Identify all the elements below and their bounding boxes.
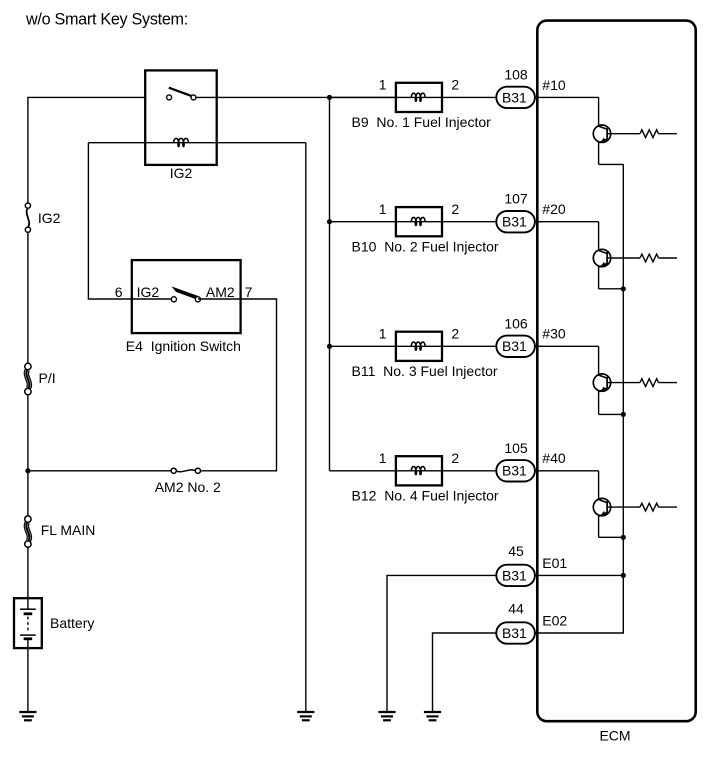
svg-text:FL MAIN: FL MAIN xyxy=(41,522,96,538)
label B11 No. 3 Fuel Injector xyxy=(352,363,498,379)
connector B31 pin 45 (E01) xyxy=(496,565,535,586)
wire: row 2 feed bus to ECM pin #20 xyxy=(330,221,599,223)
label B10 No. 2 Fuel Injector xyxy=(352,238,499,254)
connector B31 pin 105 xyxy=(496,460,535,481)
svg-text:E02: E02 xyxy=(542,612,567,628)
svg-text:B31: B31 xyxy=(502,89,527,105)
label pin 1 (row 3) xyxy=(379,326,387,342)
wire: Q1 emitter to internal bus xyxy=(599,163,624,165)
label ECM pin E01 xyxy=(542,555,567,571)
resistor R3 (base) xyxy=(607,379,677,387)
svg-text:AM2: AM2 xyxy=(206,284,235,300)
injector B9 No. 1 Fuel Injector xyxy=(396,83,442,112)
battery xyxy=(14,598,42,648)
label terminal 107 xyxy=(504,191,528,207)
connector B31 pin 44 (E02) xyxy=(496,622,535,643)
svg-text:Battery: Battery xyxy=(50,615,94,631)
svg-text:1: 1 xyxy=(379,450,387,466)
svg-text:IG2: IG2 xyxy=(137,284,160,300)
ground (E01) xyxy=(378,712,395,720)
label pin 1 (row 2) xyxy=(379,201,387,217)
junction: battery feed / AM2 branch xyxy=(25,468,30,473)
label terminal 45 xyxy=(508,543,524,559)
label pin 2 (row 3) xyxy=(451,326,459,342)
label terminal 105 xyxy=(504,440,528,456)
ground (battery) xyxy=(19,712,36,720)
label ECM pin E02 xyxy=(542,612,567,628)
label pin 2 (row 2) xyxy=(451,201,459,217)
resistor R2 (base) xyxy=(607,254,677,262)
transistor Q1 (injector 1 driver) xyxy=(593,97,610,164)
svg-text:B10 No. 2 Fuel Injector: B10 No. 2 Fuel Injector xyxy=(352,238,499,254)
relay IG2 coil xyxy=(88,138,305,147)
junction: emitter bus row 3 xyxy=(621,412,626,417)
injector B10 No. 2 Fuel Injector xyxy=(396,207,442,236)
transistor Q2 (injector 2 driver) xyxy=(593,222,610,289)
svg-text:#20: #20 xyxy=(542,201,566,217)
injector B12 No. 4 Fuel Injector xyxy=(396,456,442,485)
svg-text:#10: #10 xyxy=(542,77,566,93)
svg-text:#30: #30 xyxy=(542,326,566,342)
svg-text:1: 1 xyxy=(379,201,387,217)
svg-text:2: 2 xyxy=(451,450,459,466)
junction: bus to E01 xyxy=(621,573,626,578)
svg-text:2: 2 xyxy=(451,326,459,342)
svg-text:w/o Smart Key System:: w/o Smart Key System: xyxy=(25,11,188,29)
label IG2 (fuse) xyxy=(38,210,61,226)
label pin 2 (row 1) xyxy=(451,77,459,93)
ECM enclosure box xyxy=(537,21,695,722)
svg-text:E4 Ignition Switch: E4 Ignition Switch xyxy=(126,338,241,354)
label terminal 106 xyxy=(504,315,528,331)
svg-text:B9 No. 1 Fuel Injector: B9 No. 1 Fuel Injector xyxy=(352,114,492,130)
label AM2 No. 2 xyxy=(155,479,221,495)
svg-text:E01: E01 xyxy=(542,555,567,571)
wire: E02 ground wire xyxy=(433,575,624,712)
svg-text:IG2: IG2 xyxy=(38,210,61,226)
fuse AM2 No. 2 xyxy=(171,468,200,473)
svg-text:P/I: P/I xyxy=(39,370,56,386)
wire: Q3 emitter to internal bus xyxy=(599,413,624,415)
wire: junction to AM2 No.2 fuse xyxy=(28,470,171,472)
wire: relay coil to ignition switch IG2 pin xyxy=(88,143,173,299)
junction: emitter bus row 2 xyxy=(621,286,626,291)
transistor Q3 (injector 3 driver) xyxy=(593,346,610,414)
fuse IG2 xyxy=(25,203,30,232)
connector B31 pin 108 xyxy=(496,87,535,108)
label pin 1 (row 1) xyxy=(379,77,387,93)
label ECM xyxy=(599,728,630,744)
label P/I xyxy=(39,370,56,386)
junction: bus row 2 xyxy=(327,219,332,224)
svg-text:106: 106 xyxy=(504,315,528,331)
switch E4 ignition switch box xyxy=(132,260,241,333)
svg-text:1: 1 xyxy=(379,77,387,93)
label AM2 (switch pin) xyxy=(206,284,235,300)
label Battery xyxy=(50,615,94,631)
junction: emitter bus row 4 xyxy=(621,535,626,540)
svg-text:AM2 No. 2: AM2 No. 2 xyxy=(155,479,221,495)
svg-text:7: 7 xyxy=(245,284,253,300)
svg-text:45: 45 xyxy=(508,543,524,559)
connector B31 pin 106 xyxy=(496,336,535,357)
injector B11 No. 3 Fuel Injector xyxy=(396,332,442,361)
label terminal 44 xyxy=(508,600,524,616)
label pin 6 xyxy=(115,284,123,300)
fusible link FL MAIN xyxy=(25,516,31,547)
label ECM pin #30 xyxy=(542,326,566,342)
resistor R1 (base) xyxy=(607,130,677,138)
label pin 2 (row 4) xyxy=(451,450,459,466)
svg-text:B31: B31 xyxy=(502,625,527,641)
label ECM pin #20 xyxy=(542,201,566,217)
svg-text:1: 1 xyxy=(379,326,387,342)
relay IG2 box xyxy=(145,70,217,164)
wire: row 1 feed bus to ECM pin #10 xyxy=(330,96,599,98)
svg-text:44: 44 xyxy=(508,600,524,616)
label B9 No. 1 Fuel Injector xyxy=(352,114,492,130)
wire: battery feed, left column vertical xyxy=(28,97,145,712)
wire: E01 ground wire xyxy=(387,575,623,712)
svg-text:2: 2 xyxy=(451,77,459,93)
label terminal 108 xyxy=(504,66,528,82)
wire: row 3 feed bus to ECM pin #30 xyxy=(330,345,599,347)
svg-text:IG2: IG2 xyxy=(170,165,193,181)
wire: injector feed bus xyxy=(329,97,331,470)
label IG2 (relay) xyxy=(170,165,193,181)
svg-text:6: 6 xyxy=(115,284,123,300)
svg-text:B31: B31 xyxy=(502,567,527,583)
wire: relay switch to injector bus xyxy=(196,96,396,98)
label FL MAIN xyxy=(41,522,96,538)
wire: ignition switch AM2 pin to AM2 No.2 fuse xyxy=(198,299,277,471)
label IG2 (switch pin) xyxy=(137,284,160,300)
svg-text:2: 2 xyxy=(451,201,459,217)
svg-text:B11 No. 3 Fuel Injector: B11 No. 3 Fuel Injector xyxy=(352,363,498,379)
wire: Q2 emitter to internal bus xyxy=(599,288,624,290)
fusible link P/I xyxy=(25,363,31,395)
switch E4 contacts xyxy=(171,288,200,302)
junction: bus row 3 xyxy=(327,344,332,349)
svg-text:108: 108 xyxy=(504,66,528,82)
svg-text:B31: B31 xyxy=(502,214,527,230)
ground (relay coil) xyxy=(297,712,314,720)
wire: relay coil to ground xyxy=(305,143,307,712)
connector B31 pin 107 xyxy=(496,211,535,232)
svg-text:107: 107 xyxy=(504,191,528,207)
svg-text:#40: #40 xyxy=(542,450,566,466)
label ECM pin #10 xyxy=(542,77,566,93)
wire: row 4 feed bus to ECM pin #40 xyxy=(330,470,599,472)
svg-text:B12 No. 4 Fuel Injector: B12 No. 4 Fuel Injector xyxy=(352,487,499,503)
wire: ECM internal emitter/ground bus xyxy=(622,164,624,575)
svg-text:B31: B31 xyxy=(502,463,527,479)
wire: Q4 emitter to internal bus xyxy=(599,536,624,538)
resistor R4 (base) xyxy=(607,503,677,511)
label E4 Ignition Switch xyxy=(126,338,241,354)
svg-text:B31: B31 xyxy=(502,338,527,354)
junction: bus row 1 xyxy=(327,95,332,100)
label pin 7 xyxy=(245,284,253,300)
label ECM pin #40 xyxy=(542,450,566,466)
transistor Q4 (injector 4 driver) xyxy=(593,471,610,538)
label B12 No. 4 Fuel Injector xyxy=(352,487,499,503)
ground (E02) xyxy=(424,712,441,720)
relay IG2 switch contact xyxy=(167,88,196,100)
svg-text:105: 105 xyxy=(504,440,528,456)
label pin 1 (row 4) xyxy=(379,450,387,466)
svg-text:ECM: ECM xyxy=(599,728,630,744)
